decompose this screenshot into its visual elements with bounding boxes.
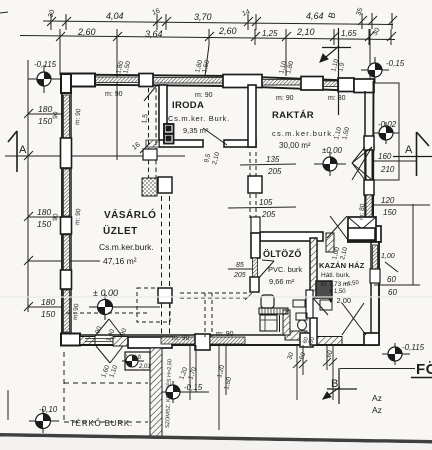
WC exterior door jamb block — [300, 333, 313, 347]
svg-text:4,04: 4,04 — [106, 11, 124, 21]
svg-text:2,01: 2,01 — [138, 364, 151, 370]
WC toilet — [296, 313, 307, 320]
top dimension row 1 — [43, 21, 393, 25]
left wall window 4 — [64, 290, 70, 332]
vertical line right x413 — [412, 204, 414, 285]
dashed paving rectangle — [64, 352, 148, 422]
bottom-right corner block — [364, 333, 379, 345]
svg-text:RAKTÁR: RAKTÁR — [272, 110, 314, 121]
svg-text:210: 210 — [380, 165, 395, 174]
svg-text:180: 180 — [37, 207, 51, 217]
svg-text:B: B — [331, 378, 338, 390]
svg-text:85: 85 — [236, 262, 244, 269]
section marker B bottom — [323, 368, 357, 404]
svg-text:180: 180 — [41, 297, 55, 307]
bottom dim extension lines — [219, 345, 337, 430]
svg-text:Hátl. burk.: Hátl. burk. — [321, 272, 351, 279]
top-left page tick — [0, 12, 8, 13]
svg-text:150: 150 — [383, 208, 397, 217]
dashed canopy rectangle — [137, 288, 170, 322]
left column 180/150 pairs — [37, 104, 55, 319]
bottom wall band toward oltozo — [210, 337, 245, 344]
svg-text:1,65: 1,65 — [341, 29, 357, 38]
left wall outer/inner lines — [61, 75, 63, 345]
svg-text:Az: Az — [372, 405, 382, 415]
porch wall band — [128, 337, 172, 348]
svg-text:FÖ: FÖ — [416, 361, 432, 378]
svg-text:180: 180 — [38, 104, 52, 114]
svg-text:-0,115: -0,115 — [402, 343, 425, 352]
left wall sill block 3 — [61, 270, 72, 289]
dotted canopy line bottom (horizontal) — [180, 292, 250, 294]
OLTOZO door leaf — [257, 261, 274, 280]
extension lines from dims down to building — [116, 45, 118, 160]
svg-text:30,00 m²: 30,00 m² — [279, 141, 311, 150]
bottom wall hatch oltozo segment — [285, 331, 307, 340]
chimney block above T — [348, 217, 376, 241]
dashed opening below partition — [249, 152, 251, 218]
canopy dashed line over entrance — [66, 312, 150, 314]
svg-text:m: 90: m: 90 — [105, 91, 123, 98]
marker -0.15 top-left — [28, 65, 60, 93]
svg-text:60: 60 — [388, 288, 397, 297]
svg-text:VÁSÁRLÓ: VÁSÁRLÓ — [104, 208, 156, 221]
IRODA door leaf — [203, 128, 227, 145]
row1 extension ticks — [47, 13, 397, 30]
svg-text:m: 90: m: 90 — [276, 95, 294, 102]
small marks near oltozo door — [245, 293, 252, 300]
svg-text:cs.m.ker.burk.: cs.m.ker.burk. — [272, 129, 335, 138]
block on dashed partition — [248, 176, 262, 193]
marker +-0.00 uzlet — [89, 294, 160, 320]
top wall window 4 glazing — [323, 81, 338, 87]
svg-text:m: 90: m: 90 — [172, 335, 190, 342]
OLTOZO+KAZAN top wall — [260, 232, 323, 241]
OLTOZO left wall — [251, 233, 260, 258]
svg-text:105: 105 — [259, 198, 273, 207]
svg-text:Cs.m.ker. Burk.: Cs.m.ker. Burk. — [168, 114, 230, 123]
135/205 dim line (raktar door) — [240, 164, 296, 165]
svg-text:2,60: 2,60 — [77, 27, 96, 37]
svg-text:120: 120 — [381, 196, 395, 205]
IRODA left wall — [159, 85, 167, 141]
svg-text:-0,15: -0,15 — [386, 59, 405, 68]
block on dashes y150 — [143, 149, 157, 160]
white column block — [158, 177, 172, 193]
left wall window 3 — [64, 235, 70, 270]
porch hatched strip — [150, 348, 162, 436]
svg-text:Cs.m.ker.burk.: Cs.m.ker.burk. — [99, 242, 154, 252]
right wall block below door — [364, 180, 374, 195]
section marker B top — [320, 28, 351, 115]
top wall window 2 glazing — [153, 78, 223, 84]
svg-text:205: 205 — [233, 272, 246, 279]
160/210 dim line right door — [374, 160, 416, 162]
right wall T junction block — [347, 226, 381, 242]
window axis lines on left — [28, 113, 62, 115]
pillar between window3-4 — [301, 77, 323, 91]
top-right pillar — [338, 78, 354, 92]
right wall block above door — [364, 136, 374, 150]
lower block on dashes — [158, 288, 172, 303]
marker -0.02 right — [373, 122, 399, 144]
IRODA bottom wall right part — [224, 140, 256, 147]
oltozo bench (radiator) — [259, 308, 288, 314]
svg-text:3,70: 3,70 — [194, 12, 212, 22]
top-right corner block — [354, 79, 374, 93]
bottom block at x196 — [195, 334, 210, 350]
IRODA door jamb hatch — [146, 140, 159, 147]
svg-text:60: 60 — [387, 275, 396, 284]
divider door swing — [313, 298, 328, 315]
dashed vertical pair near entrance — [204, 293, 206, 337]
svg-text:±0,00: ±0,00 — [322, 146, 343, 155]
svg-text:-0,15: -0,15 — [184, 383, 203, 392]
left wall sill block 1 — [61, 138, 72, 168]
WC partition wall — [283, 310, 290, 335]
kazan small fixture — [320, 300, 332, 310]
svg-text:-0,10: -0,10 — [39, 405, 58, 414]
marker -0.15 top-right — [361, 57, 389, 83]
bottom-left corner block — [61, 334, 80, 346]
OLTOZO/KAZAN divider wall — [310, 238, 317, 298]
marker +-0.00 raktar — [314, 152, 346, 176]
svg-text:135: 135 — [266, 155, 280, 164]
svg-text:m: 90: m: 90 — [72, 303, 80, 320]
svg-text:-0,02: -0,02 — [378, 120, 397, 129]
svg-text:m: 90: m: 90 — [74, 208, 82, 225]
marker -0.10 bottom-left — [29, 409, 59, 433]
divider wall lower stub — [310, 318, 317, 345]
svg-text:IRODA: IRODA — [172, 100, 204, 111]
svg-text:m: 90: m: 90 — [74, 108, 82, 125]
svg-text:47,16 m²: 47,16 m² — [103, 256, 137, 266]
thin rect right of building — [374, 83, 399, 180]
svg-text:▼1,50: ▼1,50 — [328, 289, 346, 295]
105/205 dim line — [228, 207, 296, 208]
svg-text:ÜZLET: ÜZLET — [103, 224, 138, 237]
oltozo shower box — [260, 315, 277, 331]
bottom wall band mid segment — [161, 337, 196, 344]
section marker A right — [393, 132, 432, 176]
svg-text:205: 205 — [267, 167, 282, 176]
left wall window 2 — [64, 169, 70, 216]
svg-text:9,66 m²: 9,66 m² — [269, 277, 295, 286]
canopy dashes to bottom wall — [161, 303, 163, 335]
small sink WC — [293, 300, 305, 307]
OLTOZO left wall upper — [251, 217, 260, 233]
line above FO title — [340, 368, 415, 370]
svg-text:KAZÁN HÁZ: KAZÁN HÁZ — [319, 261, 365, 270]
slash across canopy dashes — [144, 85, 157, 101]
bottom rule (sloped scan line) — [0, 433, 432, 444]
kazan right wall window — [373, 245, 378, 269]
svg-text:m: 80: m: 80 — [328, 95, 346, 102]
bottom wall hatch segment left — [80, 337, 95, 345]
wall right of WC — [306, 290, 313, 318]
left wall sill block 2 — [61, 217, 72, 234]
kazan right wall — [370, 242, 372, 335]
dim extension lines right of porch — [189, 345, 191, 400]
svg-text:150: 150 — [41, 309, 55, 319]
top wall window 3 glazing — [262, 80, 301, 86]
svg-text:3,64: 3,64 — [145, 29, 163, 39]
left vertical dimension line — [27, 60, 29, 312]
door jamb hatch left of porch — [113, 337, 128, 347]
kazan right wall block — [370, 269, 380, 283]
door double swing bowtie — [352, 147, 372, 163]
top wall band outer/inner lines (sloped scan) — [62, 75, 374, 82]
OLTOZO door threshold — [253, 258, 258, 277]
svg-text:1,25: 1,25 — [262, 29, 278, 38]
IRODA bottom wall left part — [159, 140, 203, 147]
OLTOZO left wall lower — [250, 277, 259, 292]
svg-text:205: 205 — [261, 210, 276, 219]
svg-text:90: 90 — [52, 213, 60, 221]
svg-text:2,10: 2,10 — [296, 27, 315, 37]
top dimension row 2 — [20, 36, 395, 40]
svg-text:PVC. burk: PVC. burk — [268, 265, 302, 274]
oltozo sink — [261, 295, 274, 308]
canopy dashed pair upper (uzlet) — [148, 88, 150, 149]
canopy dashed pair lower — [161, 196, 163, 288]
door in kazan top wall — [327, 216, 347, 238]
section marker A left — [8, 131, 17, 172]
svg-text:4,64: 4,64 — [306, 11, 324, 21]
IRODA/RAKTAR partition wall — [248, 85, 256, 147]
85/205 dim line oltozo door — [228, 268, 254, 270]
T pillar at IRODA/RAKTAR wall — [223, 75, 262, 88]
svg-text:90: 90 — [52, 111, 60, 119]
svg-text:m: 90: m: 90 — [216, 331, 234, 338]
svg-text:A: A — [19, 144, 27, 156]
entrance threshold lines — [85, 338, 128, 340]
svg-text:9,35 m²: 9,35 m² — [183, 126, 209, 135]
svg-text:150: 150 — [38, 116, 52, 126]
svg-text:150: 150 — [37, 219, 51, 229]
svg-text:-0,115: -0,115 — [34, 60, 57, 69]
faint scan streak — [0, 296, 432, 298]
entrance level marker — [122, 355, 144, 367]
bottom wall band — [62, 334, 310, 336]
60/60 dim line right — [374, 284, 420, 286]
svg-text:1,00: 1,00 — [381, 253, 395, 260]
kazan door swing X right — [342, 303, 364, 335]
right wall upper (x365-373) — [364, 91, 366, 228]
svg-text:m: 80: m: 80 — [358, 203, 366, 220]
svg-text:160: 160 — [378, 152, 392, 161]
boiler stippled square — [316, 281, 332, 298]
bottom wall hatch kazan segment — [317, 337, 342, 345]
svg-text:Az: Az — [372, 393, 382, 403]
top wall window 1 glazing — [95, 77, 140, 83]
svg-text:2,60: 2,60 — [218, 26, 237, 36]
pillar between window1-2 — [139, 74, 153, 87]
right wall window (120/150) — [366, 195, 372, 220]
svg-text:ÖLTÖZŐ: ÖLTÖZŐ — [263, 248, 302, 259]
120/150 dim line right window — [374, 204, 430, 206]
top-left corner pillar vertical — [61, 74, 71, 93]
stipple column — [142, 178, 157, 196]
entrance door swing above wall — [95, 319, 123, 363]
marker -0.15 bottom-mid — [161, 381, 209, 403]
Viako box — [125, 352, 150, 370]
right wall door opening 160/210 — [352, 147, 372, 180]
svg-text:TÉRKŐ BURK.: TÉRKŐ BURK. — [70, 419, 133, 428]
svg-text:m: 90: m: 90 — [195, 92, 213, 99]
top-left corner block — [61, 74, 95, 87]
left wall window 1 — [64, 95, 70, 138]
chimney flue squares in IRODA — [164, 124, 174, 144]
svg-text:A: A — [405, 144, 413, 156]
marker -0.115 bottom-right — [382, 343, 410, 365]
